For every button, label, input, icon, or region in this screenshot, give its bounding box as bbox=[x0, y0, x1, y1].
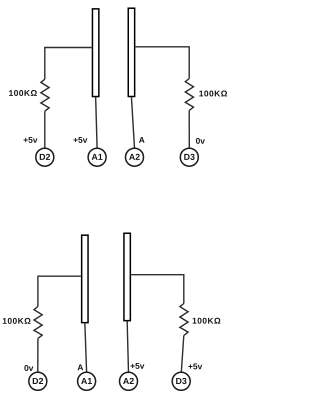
net label A (top A2) bbox=[139, 137, 145, 143]
wire: R1 bottom to pin D2 bbox=[44, 111, 46, 148]
wire: R4 bottom to pin D3 bbox=[181, 336, 184, 373]
pin A2 (top) bbox=[126, 148, 144, 166]
wire: sensor3 wiper to pin A1 bbox=[85, 323, 87, 372]
net label +5v (top A1) bbox=[74, 137, 88, 143]
resistor R1 bbox=[41, 79, 49, 111]
net label 0v (top D3) bbox=[196, 138, 205, 144]
softpot sensor 3 (bottom left) bbox=[82, 235, 88, 323]
pin D3 (bottom) bbox=[172, 372, 190, 390]
softpot sensor 1 (top left) bbox=[92, 9, 98, 97]
pin A1 (top) bbox=[88, 148, 106, 166]
wire: sensor2 wiper to pin A2 bbox=[131, 97, 134, 148]
net label +5v (bottom D3) bbox=[188, 364, 202, 370]
wire: R3 bottom to pin D2 bbox=[37, 339, 39, 373]
pin D2 (bottom) bbox=[29, 372, 47, 390]
softpot sensor 2 (top right) bbox=[128, 8, 134, 96]
resistor R3 bbox=[34, 307, 42, 339]
resistor R4 bbox=[180, 304, 188, 336]
pin A2 (bottom) bbox=[120, 372, 138, 390]
wire: R2 bottom to pin D3 bbox=[188, 111, 190, 149]
pin D3 (top) bbox=[180, 148, 198, 166]
wire: sensor4 wiper to pin A2 bbox=[127, 321, 128, 372]
net label 0v (bottom D2) bbox=[24, 365, 33, 371]
pin A1 (bottom) bbox=[78, 372, 96, 390]
net label +5v (bottom A2) bbox=[131, 363, 145, 369]
wire: sensor1 wiper to pin A1 bbox=[96, 97, 97, 148]
wire: sensor2 right pin to resistor R2 bbox=[135, 47, 189, 79]
value label 100KΩ (R2) bbox=[199, 91, 227, 97]
value label 100KΩ (R4) bbox=[193, 318, 221, 324]
resistor R2 bbox=[185, 79, 193, 111]
value label 100KΩ (R1) bbox=[9, 90, 37, 96]
wire: sensor4 right pin to resistor R4 bbox=[131, 275, 184, 304]
wire: sensor3 left pin to resistor R3 bbox=[38, 276, 81, 306]
net label +5v (top D2) bbox=[24, 137, 38, 143]
pin D2 (top) bbox=[36, 148, 54, 166]
softpot sensor 4 (bottom right) bbox=[124, 233, 130, 320]
value label 100KΩ (R3) bbox=[3, 318, 31, 324]
wire: sensor1 left pin to resistor R1 bbox=[45, 48, 92, 80]
net label A (bottom A1) bbox=[78, 364, 84, 370]
